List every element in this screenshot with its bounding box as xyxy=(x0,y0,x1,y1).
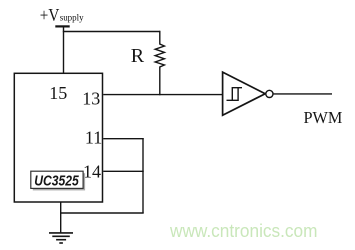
wire pin 11 stub xyxy=(103,138,144,140)
svg-text:UC3525: UC3525 xyxy=(34,173,79,189)
svg-text:11: 11 xyxy=(85,128,102,148)
svg-text:14: 14 xyxy=(83,162,101,182)
svg-text:PWM: PWM xyxy=(304,108,343,127)
schmitt trigger inverter U2 xyxy=(223,72,273,115)
wire ground rail horizontal xyxy=(61,212,144,214)
resistor R xyxy=(155,31,164,96)
svg-text:supply: supply xyxy=(60,14,84,24)
wire IC bottom to ground xyxy=(60,202,62,233)
svg-text:+V: +V xyxy=(40,5,60,25)
op-amp U1 IC body UC3525 xyxy=(14,73,102,202)
svg-text:13: 13 xyxy=(82,89,100,109)
wire pin 14 stub xyxy=(103,170,144,172)
IC name plate UC3525 xyxy=(31,171,85,190)
svg-text:www.cntronics.com: www.cntronics.com xyxy=(169,221,317,241)
node +Vsupply label xyxy=(40,5,84,25)
wire supply rail to resistor top xyxy=(63,31,160,33)
supply terminal bar xyxy=(55,25,69,27)
wire pin 13 to inverter input xyxy=(103,94,222,96)
svg-text:R: R xyxy=(131,45,145,67)
wire inverter output xyxy=(273,93,332,95)
svg-text:15: 15 xyxy=(49,83,67,103)
wire junction vertical pins 11-14 to ground rail xyxy=(142,138,144,213)
wire supply bar down to IC pin 15 xyxy=(63,26,65,73)
ground xyxy=(49,233,73,243)
